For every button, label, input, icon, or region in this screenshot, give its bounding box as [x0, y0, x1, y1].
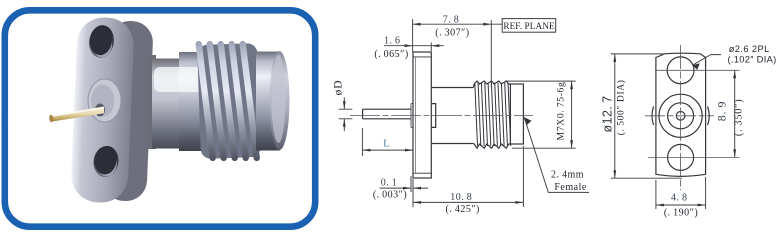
- body silhouette bulge right: [708, 107, 710, 126]
- top mounting hole: [667, 57, 694, 84]
- dim 8.9: [734, 70, 736, 157]
- flange plate face: [70, 16, 135, 203]
- thread rib 2: [206, 41, 227, 162]
- smooth body main section: [179, 52, 260, 151]
- svg-text:(. 003″): (. 003″): [373, 190, 407, 201]
- svg-text:(. 350″): (. 350″): [734, 98, 745, 136]
- dim 1.6 line and extension: [384, 43, 444, 52]
- center pin outline: [363, 109, 411, 119]
- svg-text:M7X0. 75-6g: M7X0. 75-6g: [556, 82, 567, 141]
- right view dimensions: [611, 54, 735, 209]
- arrowheads middle view: [343, 23, 573, 204]
- flange outline: [656, 53, 706, 176]
- svg-text:(. 065″): (. 065″): [374, 49, 408, 60]
- bottom mounting hole: [668, 144, 694, 170]
- dim 7.8 line and extensions: [413, 19, 503, 88]
- svg-text:4. 8: 4. 8: [671, 193, 688, 204]
- 7.8 arrows: [413, 23, 421, 26]
- interface middle circle: [668, 103, 694, 129]
- end cap face: [270, 51, 290, 150]
- dia2.6 leader arrow: [693, 63, 700, 70]
- leader 2.4mm Female: [524, 117, 589, 192]
- svg-text:(.102″ DIA): (.102″ DIA): [728, 55, 777, 65]
- svg-text:1. 6: 1. 6: [384, 36, 401, 47]
- svg-text:0. 1: 0. 1: [381, 177, 398, 188]
- svg-text:7. 8: 7. 8: [443, 15, 460, 26]
- dim oD ticks and line: [339, 98, 353, 132]
- dim dia12.7: [611, 54, 682, 178]
- svg-text:2. 4mm: 2. 4mm: [551, 169, 584, 180]
- neck cylinder: [152, 59, 182, 149]
- svg-text:REF. PLANE: REF. PLANE: [503, 21, 555, 31]
- interface outer circle: [659, 94, 702, 137]
- svg-text:Female: Female: [554, 182, 586, 193]
- dim 10.8 line and extensions: [413, 146, 523, 207]
- right view centerlines: [645, 45, 740, 190]
- thread rib 4: [228, 41, 249, 162]
- leader dia2.6: [693, 55, 722, 66]
- 8.9 arrows: [733, 70, 736, 78]
- svg-text:(. 307″): (. 307″): [435, 28, 469, 39]
- svg-text:(. 190″): (. 190″): [664, 207, 698, 218]
- 4.8 arrows: [656, 204, 664, 207]
- dim 4.8: [656, 177, 706, 209]
- bright highlight band: [154, 67, 204, 92]
- svg-text:10. 8: 10. 8: [450, 192, 472, 203]
- L arrows: [362, 149, 370, 152]
- thread rib 1: [195, 41, 216, 162]
- smooth end section: [256, 52, 280, 151]
- plate joint shadow: [146, 55, 156, 149]
- 3D render: connector group: [49, 16, 290, 203]
- dim 0.1 lines and extensions: [380, 176, 429, 192]
- thread section bottom zigzag: [473, 144, 510, 149]
- bottom mounting hole: [92, 144, 121, 178]
- svg-text:ø2.6 2PL: ø2.6 2PL: [729, 44, 770, 54]
- right boss: [431, 104, 435, 128]
- svg-text:øD: øD: [333, 80, 345, 96]
- M7 arrows: [570, 81, 573, 89]
- top mounting hole: [87, 24, 116, 60]
- thread crown silhouette: [197, 43, 261, 159]
- neck cylinder: [431, 88, 473, 144]
- center pin: [51, 107, 104, 122]
- nose / pilot cylinder: [510, 84, 523, 144]
- dim M7 line and extensions: [505, 81, 576, 148]
- dim L line and extension: [362, 128, 413, 156]
- 2.4mm leader arrow: [524, 117, 531, 125]
- svg-text:8. 9: 8. 9: [715, 101, 729, 122]
- thread rib 5: [239, 41, 260, 162]
- 0.1 arrows (outside): [403, 187, 411, 190]
- 1.6 arrows (outside): [405, 44, 413, 47]
- insulator step 0.1 boss: [411, 104, 413, 128]
- svg-text:ø12. 7: ø12. 7: [601, 96, 615, 133]
- oD arrows (outside): [343, 101, 346, 109]
- middle view centerline: [350, 114, 533, 116]
- thread rib 3: [217, 41, 238, 162]
- flange chamfer lines: [413, 57, 431, 173]
- flange depth side: [102, 20, 153, 202]
- svg-text:(. 500″ DIA): (. 500″ DIA): [616, 79, 627, 135]
- REF. PLANE box: [502, 19, 556, 33]
- flange plate: [413, 52, 431, 178]
- svg-text:L: L: [383, 138, 390, 149]
- 10.8 arrows: [413, 201, 421, 204]
- interface center socket: [676, 112, 685, 121]
- dia12.7 arrows: [613, 54, 616, 62]
- center boss: [88, 79, 121, 122]
- blue rounded photo frame: [5, 10, 315, 226]
- thread flank diagonals: [475, 83, 511, 146]
- pin entry shadow: [95, 104, 105, 117]
- thread section top zigzag: [473, 81, 510, 88]
- svg-text:(. 425″): (. 425″): [446, 204, 480, 215]
- body silhouette bulge left: [652, 107, 654, 126]
